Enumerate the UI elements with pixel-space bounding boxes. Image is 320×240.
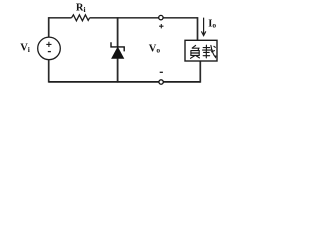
svg-text:Ri: Ri [76,3,86,15]
output terminal bottom [159,80,163,84]
output minus sign [160,71,163,73]
output plus sign [159,24,163,28]
svg-text:Vi: Vi [20,43,30,54]
resistor Ri [72,15,90,21]
load label character 负 (fu) strokes [191,45,200,58]
svg-text:Vo: Vo [149,43,161,54]
wire right vertical from load box bottom [199,61,201,83]
voltage source plus sign [46,42,51,47]
wire left vertical bottom (source to bottom wire) [48,60,50,83]
wire right vertical into load box [197,17,199,40]
wire zener branch top [117,17,119,47]
svg-text:Io: Io [208,18,216,29]
wire zener branch bottom [117,59,119,83]
zener diode cathode bar with bent ends [111,42,124,51]
current arrow Io [201,18,205,36]
wire top horizontal left segment [49,17,72,19]
wire bottom horizontal [49,81,201,83]
voltage source Vi circle [38,37,61,60]
wire left vertical top (source to top wire) [48,17,50,37]
voltage source minus sign [48,51,51,53]
output terminal top [159,15,163,19]
zener diode triangle [112,47,124,58]
load box [185,40,217,61]
load label character 载 (zai) strokes [203,45,216,58]
wire top horizontal right segment [90,17,198,19]
